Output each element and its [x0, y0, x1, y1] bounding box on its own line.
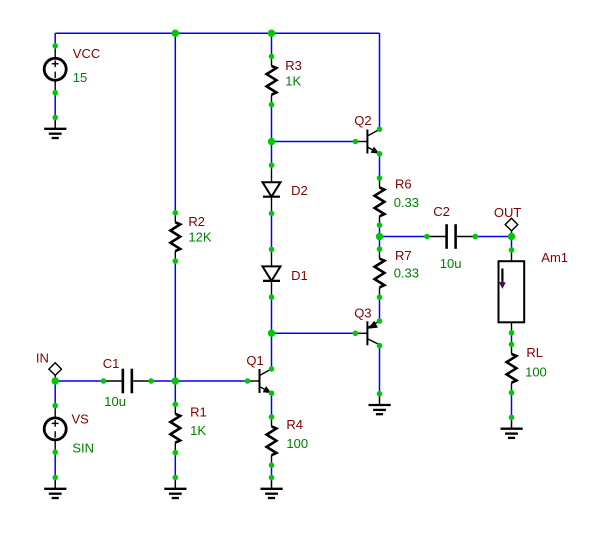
resistor RL [507, 344, 517, 392]
pin D2 cathode [269, 211, 275, 217]
svg-text:D1: D1 [291, 268, 308, 283]
junction node E (R6/R7/C2) [376, 233, 383, 240]
svg-text:0.33: 0.33 [394, 265, 419, 280]
label IN [36, 350, 49, 365]
pin D1 cathode [269, 294, 275, 300]
pin R4 top [269, 414, 275, 420]
svg-text:Q1: Q1 [246, 353, 263, 368]
value 1K R3 [285, 74, 301, 89]
label VCC [73, 46, 100, 61]
value 15 [73, 70, 87, 85]
svg-text:Am1: Am1 [541, 250, 568, 265]
label R3 [285, 58, 302, 73]
value 0.33 R6 [394, 195, 419, 210]
pin R6 top [377, 175, 383, 181]
label C2 [433, 204, 450, 219]
wire R1 to ground [174, 453, 176, 478]
svg-text:R1: R1 [190, 405, 207, 420]
wire R3 to node B / D2 [271, 105, 273, 166]
pin D1 anode [269, 247, 275, 253]
pin VCC + [52, 43, 58, 49]
svg-text:10u: 10u [104, 394, 126, 409]
svg-text:R3: R3 [285, 58, 302, 73]
junction top rail / R2 [172, 30, 179, 37]
svg-text:10u: 10u [440, 256, 462, 271]
value 12K [188, 230, 211, 245]
pin Q3 emitter [377, 318, 383, 324]
svg-text:R2: R2 [188, 214, 205, 229]
pin R1 top [173, 402, 179, 408]
ammeter Am1 [499, 250, 525, 333]
label D2 [291, 183, 308, 198]
wire Am1 to RL [511, 333, 513, 345]
svg-text:Q3: Q3 [354, 305, 371, 320]
wire C2 to OUT node [475, 236, 511, 238]
pin R7 bottom [377, 294, 383, 300]
wire D1 to node D / Q1 collector [271, 297, 273, 369]
pin C2 left [424, 234, 430, 240]
wire VCC to top rail [54, 33, 56, 46]
pin RL bottom [509, 390, 515, 396]
pin Q2 collector [377, 126, 383, 132]
pin VS - [52, 449, 58, 455]
voltage source VS [44, 406, 66, 453]
wire VS to ground [54, 452, 56, 477]
resistor R6 [375, 178, 385, 225]
wire IN node to VS [54, 381, 56, 406]
wire node E to C2 [380, 236, 428, 238]
junction node B (R3/D2/Q2 base) [268, 138, 275, 145]
node IN diamond [49, 363, 62, 381]
resistor R2 [170, 213, 180, 261]
ground below RL [501, 417, 523, 438]
value 10u C2 [440, 256, 462, 271]
pin C2 right [472, 234, 478, 240]
pin RL ground [509, 415, 515, 421]
resistor R1 [170, 404, 180, 452]
svg-text:100: 100 [525, 364, 547, 379]
label Am1 [541, 250, 568, 265]
svg-text:RL: RL [526, 345, 543, 360]
pin Am1 bottom [509, 330, 515, 336]
label VS [72, 412, 90, 427]
capacitor C2 [427, 224, 475, 249]
wire input node to R1 [174, 381, 176, 404]
label C1 [103, 356, 120, 371]
value 100 RL [525, 364, 547, 379]
svg-text:C2: C2 [433, 204, 450, 219]
label R1 [190, 405, 207, 420]
voltage source VCC [44, 46, 66, 93]
resistor R7 [375, 249, 385, 297]
ground below Q3 [369, 394, 391, 415]
pin C1 left [101, 378, 107, 384]
label OUT [494, 205, 522, 220]
svg-text:15: 15 [73, 70, 87, 85]
label RL [526, 345, 543, 360]
svg-text:R7: R7 [395, 248, 412, 263]
transistor Q1 [248, 369, 272, 394]
wire D2 to D1 [271, 213, 273, 249]
label R2 [188, 214, 205, 229]
pin Q3 base [353, 331, 359, 337]
label R4 [286, 417, 303, 432]
svg-text:OUT: OUT [494, 205, 522, 220]
wire C1 to Q1 base [151, 380, 247, 382]
pin VS ground [52, 475, 58, 481]
wire Q1 emitter to R4 [271, 393, 273, 417]
pin R2 top [173, 210, 179, 216]
label Q2 [354, 113, 371, 128]
pin R4 ground [269, 475, 275, 481]
junction node OUT [508, 233, 515, 240]
wire R2 to input node [174, 261, 176, 381]
pin R3 top [269, 54, 275, 60]
pin RL top [509, 342, 515, 348]
value 10u C1 [104, 394, 126, 409]
junction node D (D1/Q3 base/Q1 collector) [268, 330, 275, 337]
pin Q1 emitter [269, 390, 275, 396]
wire top rail to R3 [271, 33, 273, 56]
wire VCC minus to ground [54, 93, 56, 118]
capacitor C1 [104, 369, 152, 394]
label Q3 [354, 305, 371, 320]
resistor R3 [267, 56, 277, 104]
svg-text:1K: 1K [190, 423, 206, 438]
node OUT diamond [505, 218, 518, 236]
pin Q3 collector [377, 343, 383, 349]
wire top rail to Q2 collector [379, 33, 381, 129]
transistor Q3 [355, 321, 379, 346]
pin R4 bottom [269, 462, 275, 468]
wire IN node to C1 [55, 380, 103, 382]
pin C1 right [148, 378, 154, 384]
ground below R4 [261, 478, 283, 499]
svg-text:D2: D2 [291, 183, 308, 198]
value 100 R4 [286, 436, 308, 451]
pin R1 ground [173, 475, 179, 481]
ground below VCC [44, 118, 66, 139]
svg-text:R6: R6 [395, 177, 412, 192]
svg-text:IN: IN [36, 350, 49, 365]
pin VCC ground [52, 115, 58, 121]
pin Q1 base [245, 378, 251, 384]
pin R2 bottom [173, 258, 179, 264]
pin VCC - [52, 90, 58, 96]
wire top rail to R2 [174, 33, 176, 213]
pin R1 bottom [173, 450, 179, 456]
wire RL to ground [511, 393, 513, 418]
pin R3 bottom [269, 102, 275, 108]
transistor Q2 [355, 129, 379, 154]
svg-text:C1: C1 [103, 356, 120, 371]
svg-text:VS: VS [72, 412, 90, 427]
label D1 [291, 268, 308, 283]
value 1K R1 [190, 423, 206, 438]
pin VS + [52, 403, 58, 409]
junction top rail / R3 [268, 30, 275, 37]
svg-text:VCC: VCC [73, 46, 100, 61]
svg-text:SIN: SIN [72, 441, 94, 456]
pin Q2 emitter [377, 151, 383, 157]
ground below VS [44, 478, 66, 499]
wire OUT node to Am1 [511, 237, 513, 251]
pin R7 top [377, 246, 383, 252]
pin D2 anode [269, 162, 275, 168]
pin Am1 top [509, 247, 515, 253]
wire R6 to node E / R7 [379, 225, 381, 249]
label Q1 [246, 353, 263, 368]
wire Q3 collector to ground [379, 346, 381, 394]
value 0.33 R7 [394, 265, 419, 280]
diode D1 [263, 249, 281, 297]
svg-text:R4: R4 [286, 417, 303, 432]
pin R6 bottom [377, 222, 383, 228]
pin Q1 collector [269, 366, 275, 372]
svg-text:12K: 12K [188, 230, 211, 245]
wire top rail VCC to Q2 collector [55, 32, 379, 34]
label R6 [395, 177, 412, 192]
value SIN [72, 441, 94, 456]
wire node D to Q3 base [272, 332, 356, 334]
junction C1/R2/R1 node [172, 377, 179, 384]
wire node B to Q2 base [272, 141, 356, 143]
svg-text:Q2: Q2 [354, 113, 371, 128]
label R7 [395, 248, 412, 263]
ground below R1 [164, 478, 186, 499]
pin Q2 base [353, 139, 359, 145]
junction node IN [52, 377, 59, 384]
wire Q2 emitter to R6 [379, 154, 381, 178]
pin Q3 ground [377, 391, 383, 397]
wire R4 to ground [271, 465, 273, 477]
svg-text:1K: 1K [285, 74, 301, 89]
resistor R4 [267, 417, 277, 465]
diode D2 [263, 165, 281, 213]
svg-text:100: 100 [286, 436, 308, 451]
wire R7 to Q3 emitter [379, 297, 381, 321]
svg-text:0.33: 0.33 [394, 195, 419, 210]
